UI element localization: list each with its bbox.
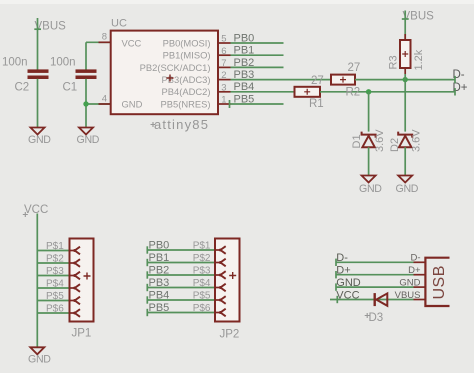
wire net PB4 to JP2 xyxy=(147,299,215,301)
wire net PB4 xyxy=(231,91,295,93)
svg-text:PB5: PB5 xyxy=(149,302,170,314)
capacitor C1 xyxy=(76,69,97,73)
svg-text:attiny85: attiny85 xyxy=(154,117,209,132)
svg-text:P$3: P$3 xyxy=(46,266,64,277)
svg-text:P$5: P$5 xyxy=(46,291,64,302)
wire JP1 pin 6 xyxy=(37,312,69,314)
net end tick D+ xyxy=(454,88,456,95)
svg-text:JP1: JP1 xyxy=(72,328,92,340)
wire C1 to ground / pin4 xyxy=(85,79,87,128)
svg-text:UC: UC xyxy=(111,18,127,30)
pin contact JP1-1 xyxy=(69,250,75,252)
svg-text:P$2: P$2 xyxy=(193,253,211,264)
pin stub row 3 xyxy=(218,91,231,93)
svg-text:PB2(SCK/ADC1): PB2(SCK/ADC1) xyxy=(140,62,211,73)
ground (D1) xyxy=(362,176,376,183)
svg-text:PB2: PB2 xyxy=(149,264,170,276)
svg-text:PB5(NRES): PB5(NRES) xyxy=(160,98,210,109)
svg-text:D+: D+ xyxy=(408,265,421,276)
svg-text:P$1: P$1 xyxy=(193,240,211,251)
svg-text:PB3: PB3 xyxy=(234,69,255,81)
wire JP1 pin 2 xyxy=(37,262,69,264)
svg-text:PB5: PB5 xyxy=(234,93,255,105)
IC origin cross xyxy=(167,75,174,82)
net end tick PB4 xyxy=(146,296,148,303)
wire VCC rail xyxy=(36,214,38,348)
JP1 origin cross xyxy=(84,273,91,280)
USB pin stubs xyxy=(414,261,426,263)
wire C2 to ground xyxy=(37,79,39,128)
wire net PB3 to JP2 xyxy=(147,287,215,289)
ground (VCC rail) xyxy=(30,347,44,354)
wire net PB3 xyxy=(231,79,332,81)
wire net D- to USB xyxy=(336,261,414,263)
svg-text:1.2k: 1.2k xyxy=(413,49,425,70)
net stub tick PB5 xyxy=(229,100,231,108)
wire R2 to D- xyxy=(355,79,455,81)
svg-text:GND: GND xyxy=(336,277,361,289)
net end tick D- xyxy=(335,259,337,266)
svg-text:VCC: VCC xyxy=(336,289,359,301)
svg-text:PB3: PB3 xyxy=(149,277,170,289)
svg-text:VBUS: VBUS xyxy=(35,21,67,33)
svg-text:R2: R2 xyxy=(346,86,361,98)
svg-text:P$5: P$5 xyxy=(193,290,211,301)
resistor R3 xyxy=(404,34,406,40)
svg-text:GND: GND xyxy=(28,354,51,366)
wire net PB0 xyxy=(231,42,284,44)
svg-text:D-: D- xyxy=(410,253,420,264)
ground (C1) xyxy=(79,128,93,135)
svg-text:D+: D+ xyxy=(336,265,350,277)
svg-text:GND: GND xyxy=(396,183,419,195)
wire D1 to ground xyxy=(368,147,370,175)
svg-text:VCC: VCC xyxy=(122,37,142,48)
wire VCC net: C1 riser to IC pin 8 xyxy=(85,42,87,69)
pin contact JP2-1 xyxy=(214,249,220,251)
wire net PB2 xyxy=(231,66,284,68)
svg-text:R1: R1 xyxy=(309,98,324,110)
net end tick D- xyxy=(454,76,456,83)
svg-text:P$1: P$1 xyxy=(46,241,64,252)
JP2 origin cross xyxy=(229,272,236,279)
svg-text:GND: GND xyxy=(77,134,100,146)
junction node (368,91.8) xyxy=(366,89,371,94)
net end tick PB1 xyxy=(146,259,148,266)
svg-text:PB1: PB1 xyxy=(149,252,170,264)
svg-text:C2: C2 xyxy=(15,82,30,94)
svg-text:100n: 100n xyxy=(50,57,76,69)
pin contact JP1-2 xyxy=(69,262,75,264)
svg-text:3.6V: 3.6V xyxy=(374,129,386,152)
svg-text:GND: GND xyxy=(122,98,143,109)
svg-text:PB4: PB4 xyxy=(149,289,170,301)
wire R3 to node xyxy=(404,74,406,80)
wire node to zener D2 xyxy=(404,80,406,132)
wire R1 to D+ xyxy=(320,91,455,93)
pin contact JP2-2 xyxy=(214,262,220,264)
pin contact JP1-3 xyxy=(69,275,75,277)
pin stub row 2 xyxy=(218,79,231,81)
wire net VCC to USB xyxy=(330,299,414,301)
svg-text:JP2: JP2 xyxy=(220,329,240,341)
svg-text:D-: D- xyxy=(336,252,348,264)
capacitor C2 xyxy=(28,69,49,73)
wire GND net to IC pin 4 xyxy=(86,103,111,105)
svg-text:GND: GND xyxy=(399,278,420,289)
svg-text:D2: D2 xyxy=(389,138,401,152)
svg-text:GND: GND xyxy=(28,134,51,146)
pin contact JP2-3 xyxy=(214,274,220,276)
wire net PB5 xyxy=(231,103,284,105)
svg-text:27: 27 xyxy=(348,62,361,74)
wire net PB1 xyxy=(231,54,284,56)
junction node (86,104) xyxy=(83,101,88,106)
svg-text:R3: R3 xyxy=(388,55,400,69)
svg-text:4: 4 xyxy=(102,94,107,105)
wire D2 to ground xyxy=(404,147,406,175)
svg-text:P$4: P$4 xyxy=(193,278,211,289)
ground (D2) xyxy=(398,176,412,183)
wire net PB2 to JP2 xyxy=(147,274,215,276)
connector JP1 body xyxy=(70,239,94,322)
svg-text:PB4: PB4 xyxy=(234,81,255,93)
svg-text:P$4: P$4 xyxy=(46,278,64,289)
svg-text:100n: 100n xyxy=(2,57,28,69)
wire JP1 pin 5 xyxy=(37,300,69,302)
net end tick GND xyxy=(335,283,337,290)
svg-text:D3: D3 xyxy=(369,312,384,324)
svg-text:PB0: PB0 xyxy=(234,32,255,44)
net end tick PB3 xyxy=(146,284,148,291)
svg-text:3.6V: 3.6V xyxy=(411,129,423,152)
svg-text:VBUS: VBUS xyxy=(395,290,421,301)
svg-text:PB4(ADC2): PB4(ADC2) xyxy=(162,86,211,97)
pin contact JP1-4 xyxy=(69,287,75,289)
pin contact JP2-5 xyxy=(214,299,220,301)
resistor R2 xyxy=(331,75,355,85)
svg-text:8: 8 xyxy=(102,32,107,43)
svg-text:VBUS: VBUS xyxy=(403,11,435,23)
wire net PB0 to JP2 xyxy=(147,249,215,251)
svg-text:PB0(MOSI): PB0(MOSI) xyxy=(163,37,211,48)
IC left pin stubs xyxy=(99,41,111,43)
svg-text:USB: USB xyxy=(431,265,448,299)
svg-text:C1: C1 xyxy=(63,82,78,94)
svg-text:27: 27 xyxy=(311,75,324,87)
svg-text:P$3: P$3 xyxy=(193,265,211,276)
pin stub row 1 xyxy=(218,103,231,105)
svg-text:PB1: PB1 xyxy=(234,45,255,57)
svg-text:P$2: P$2 xyxy=(46,253,64,264)
wire JP1 pin 1 xyxy=(37,250,69,252)
wire JP1 pin 3 xyxy=(37,275,69,277)
net end tick VCC xyxy=(336,296,338,303)
net end tick PB2 xyxy=(146,271,148,278)
resistor R1 xyxy=(295,87,321,97)
net end tick PB5 xyxy=(146,309,148,316)
pin contact JP1-5 xyxy=(69,300,75,302)
svg-text:PB3(ADC3): PB3(ADC3) xyxy=(162,74,211,85)
svg-text:P$6: P$6 xyxy=(193,303,211,314)
svg-text:GND: GND xyxy=(359,183,382,195)
svg-text:PB2: PB2 xyxy=(234,57,255,69)
pin contact JP2-4 xyxy=(214,287,220,289)
pin stub row 5 xyxy=(218,42,231,44)
op-amp/IC U1 attiny85 box xyxy=(111,31,218,115)
pin stub row 6 xyxy=(218,54,231,56)
wire net D+ to USB xyxy=(336,274,414,276)
ground (C2) xyxy=(31,128,45,135)
net end tick PB0 xyxy=(146,246,148,253)
wire JP1 pin 4 xyxy=(37,287,69,289)
svg-text:PB1(MISO): PB1(MISO) xyxy=(163,50,211,61)
pin contact JP2-6 xyxy=(214,312,220,314)
zener diode D1 xyxy=(362,132,376,138)
wire net PB1 to JP2 xyxy=(147,262,215,264)
svg-text:D1: D1 xyxy=(351,134,363,148)
junction node (405,79.6) xyxy=(403,77,408,82)
wire node to zener D1 xyxy=(368,92,370,132)
wire net GND to USB xyxy=(336,286,414,288)
net end tick D+ xyxy=(335,271,337,278)
wire net PB5 to JP2 xyxy=(147,312,215,314)
USB connector body xyxy=(425,258,449,306)
diode D3 xyxy=(374,293,376,306)
svg-text:PB0: PB0 xyxy=(149,239,170,251)
zener diode D2 xyxy=(398,132,412,138)
pin contact JP1-6 xyxy=(69,312,75,314)
pin stub row 7 xyxy=(218,66,231,68)
svg-text:P$6: P$6 xyxy=(46,303,64,314)
connector JP2 body xyxy=(215,239,240,322)
